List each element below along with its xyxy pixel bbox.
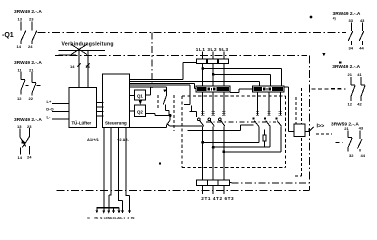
junction dot L2 xyxy=(212,73,215,76)
changeover arrow xyxy=(22,140,26,144)
aux contact block Q1 (top left, 2NO) xyxy=(2,9,42,49)
trip contact xyxy=(305,127,314,132)
bypass contact K2 xyxy=(167,116,171,128)
CT block right (bypass) xyxy=(253,86,284,92)
branch L1 to bypass c1 xyxy=(203,69,282,87)
svg-text:21: 21 xyxy=(348,72,353,77)
arrow Q1 to Q2 xyxy=(139,101,142,105)
control box Steuerung xyxy=(102,74,129,127)
relay box Q1 xyxy=(135,90,146,100)
svg-text:D-O: D-O xyxy=(46,107,53,112)
bypass contact K1 xyxy=(163,87,169,116)
phase wires down to CT xyxy=(203,64,224,87)
actuator dash-dot into device xyxy=(151,33,153,89)
junction dots on columns xyxy=(201,141,204,144)
svg-text:13: 13 xyxy=(18,17,23,22)
mechanical link dash-dot line (Q1 to right aux blocks) xyxy=(38,32,347,34)
wire pair with crossing (Verbindungsleitung) xyxy=(58,44,105,87)
svg-text:14: 14 xyxy=(17,44,22,49)
crossing X xyxy=(71,44,87,54)
fuse element xyxy=(263,129,265,135)
svg-text:44: 44 xyxy=(361,153,366,158)
aux contact block 3 (bottom left, changeover) xyxy=(14,117,42,160)
bypass contact column 3 xyxy=(275,92,282,153)
svg-text:14: 14 xyxy=(18,155,23,160)
svg-text:43: 43 xyxy=(360,18,365,23)
svg-text:1L1 3L2 5L3: 1L1 3L2 5L3 xyxy=(196,47,229,52)
svg-text:44: 44 xyxy=(359,46,364,51)
coupling dash-dot through contacts xyxy=(206,121,276,123)
svg-text:14: 14 xyxy=(85,64,90,69)
svg-text:4): 4) xyxy=(333,17,336,21)
wire CT to overcurrent trip xyxy=(284,87,294,132)
output terminal block 6T3 xyxy=(218,180,229,185)
svg-text:24: 24 xyxy=(27,155,32,160)
svg-text:Verbindungsleitung: Verbindungsleitung xyxy=(62,41,114,47)
actuator dash to NC block xyxy=(312,88,346,90)
svg-text:PE: PE xyxy=(131,216,135,220)
output terminal block 2T1 xyxy=(197,180,208,185)
svg-text:32: 32 xyxy=(349,153,354,158)
link between CT blocks xyxy=(230,89,253,92)
wire contact to power line xyxy=(167,124,203,126)
wire box2 to Q1 xyxy=(130,94,135,96)
fan supply wire L+ xyxy=(52,103,69,105)
fan supply wire L- xyxy=(52,118,69,120)
output stubs xyxy=(203,185,224,194)
svg-text:-Q1: -Q1 xyxy=(2,32,14,39)
contact Q1.1 (NO) xyxy=(21,22,26,45)
wire box2 to Q2 xyxy=(130,110,135,112)
actuator dash xyxy=(336,142,343,144)
svg-text:43: 43 xyxy=(359,126,364,131)
input terminal block 5L3 xyxy=(219,59,229,64)
bypass return wire 4 xyxy=(224,151,281,153)
contact NC xyxy=(348,131,352,152)
enclosure border top (dash-dot) xyxy=(55,55,307,57)
bypass contact column 2 xyxy=(264,92,271,147)
wire to junction xyxy=(155,115,170,117)
connector drops xyxy=(97,208,119,211)
svg-text:3RW49 2.-.A: 3RW49 2.-.A xyxy=(14,9,42,15)
svg-text:N/L-: N/L- xyxy=(118,216,124,220)
svg-text:Q2: Q2 xyxy=(137,110,143,115)
control wire 1 xyxy=(103,128,105,208)
action dashes right xyxy=(316,133,332,135)
input terminal stubs xyxy=(203,52,224,60)
branch L2 to bypass c2 xyxy=(213,74,270,86)
bypass contact column 1 xyxy=(253,92,260,143)
wire marks xyxy=(77,63,89,66)
thyristor column 2 xyxy=(208,92,215,180)
action dash line Q1 xyxy=(157,95,159,110)
wire to box2 bottom xyxy=(130,127,167,129)
contact Q1.2 (NO) xyxy=(32,22,37,45)
control wire 4 xyxy=(126,128,130,211)
output terminal block 4T2 xyxy=(207,180,218,185)
svg-text:+2 A2-: +2 A2- xyxy=(117,137,130,142)
enclosure border bottom (dash-dot) xyxy=(57,190,310,192)
svg-text:41: 41 xyxy=(357,72,362,77)
trip action dash-dot to right blocks xyxy=(232,182,310,184)
junction dot xyxy=(169,114,172,117)
svg-text:3RW49 2.-.A: 3RW49 2.-.A xyxy=(14,117,42,123)
fan supply wire mid xyxy=(52,110,69,112)
svg-text:1: 1 xyxy=(124,216,126,220)
control bus line 2 (to bypass c3) xyxy=(130,81,260,86)
enclosure border right (dash-dot) xyxy=(308,55,310,190)
bypass return wire 3 xyxy=(213,146,270,148)
contact NC left xyxy=(351,77,355,101)
contact NC 21-22 xyxy=(32,72,36,96)
ladder rungs between boxes xyxy=(97,103,104,117)
svg-text:23: 23 xyxy=(29,17,34,22)
svg-text:21: 21 xyxy=(344,126,349,131)
svg-text:3RW49 2.-.A: 3RW49 2.-.A xyxy=(332,64,360,70)
svg-text:22: 22 xyxy=(29,96,34,101)
control bus line 5 (to K1) xyxy=(130,86,167,88)
svg-text:33: 33 xyxy=(349,18,354,23)
svg-text:13: 13 xyxy=(17,124,22,129)
contact NO xyxy=(358,131,363,152)
contact 43-44 xyxy=(359,23,364,45)
svg-text:21: 21 xyxy=(29,68,34,73)
svg-text:I>>: I>> xyxy=(317,123,325,129)
marker triangle xyxy=(322,53,325,56)
svg-text:Steuerung: Steuerung xyxy=(105,121,127,126)
wire down to fan box (left) xyxy=(78,50,80,87)
svg-text:Q1: Q1 xyxy=(137,94,143,99)
aux contact block bottom right (NC+NO) xyxy=(331,121,366,158)
control wire 3 xyxy=(119,128,123,211)
svg-text:34: 34 xyxy=(349,46,354,51)
svg-text:L+: L+ xyxy=(47,99,52,104)
svg-text:2: 2 xyxy=(128,216,130,220)
arrowheads xyxy=(96,211,131,214)
thyristor column 3 xyxy=(219,92,226,180)
contact NC 11-12 xyxy=(21,72,25,95)
svg-text:N: N xyxy=(88,216,90,220)
control wire 2 xyxy=(109,128,111,208)
input terminal block 1L1 xyxy=(197,59,207,64)
bypass return wire 2 xyxy=(203,141,259,143)
svg-text:PE: PE xyxy=(95,216,99,220)
svg-text:42: 42 xyxy=(357,101,362,106)
output bar nub xyxy=(230,182,232,184)
fan box TÜ-Lüfter xyxy=(69,88,97,128)
svg-text:24: 24 xyxy=(28,44,33,49)
stray dot xyxy=(159,162,161,164)
inner dashed rectangle (power section) xyxy=(182,96,285,168)
junction dot L1 xyxy=(201,67,204,70)
aux contact block top right (2NO 33/34 43/44) xyxy=(333,11,366,51)
footnote dot xyxy=(310,16,313,19)
svg-text:3RW49 2.-.A: 3RW49 2.-.A xyxy=(14,60,42,66)
contact 33-34 xyxy=(348,23,353,45)
svg-text:12: 12 xyxy=(17,96,22,101)
actuator dashes xyxy=(26,85,41,87)
control bus line 1 (to terminal 1L1) xyxy=(130,63,197,80)
contact NC right xyxy=(361,77,365,101)
control bus line 4 (gate b) xyxy=(130,85,197,117)
thyristor column 1 xyxy=(198,92,205,180)
CT block left xyxy=(196,86,230,92)
svg-text:TÜ-Lüfter: TÜ-Lüfter xyxy=(72,121,92,126)
control bus line 3 (gate a) xyxy=(130,83,197,88)
wire down to fan box (right) xyxy=(87,50,89,88)
aux contact block middle right (2NC) xyxy=(331,61,365,106)
actuator arrowhead xyxy=(163,89,167,92)
action dashes below xyxy=(295,88,302,176)
actuator dash xyxy=(331,88,341,90)
input terminal block 3L2 xyxy=(208,59,218,64)
bypass return wire 1 xyxy=(188,125,254,131)
wire Q2 right xyxy=(146,113,155,115)
aux contact block 2 (middle left, 2NC) xyxy=(14,60,42,101)
overcurrent trip box xyxy=(294,88,332,176)
svg-text:3RW49 2.-.A: 3RW49 2.-.A xyxy=(333,11,361,17)
changeover contact xyxy=(20,128,30,155)
wire Q1 right xyxy=(146,87,151,95)
relay box Q2 xyxy=(135,105,146,116)
svg-text:12: 12 xyxy=(348,101,353,106)
svg-text:A1/+/1: A1/+/1 xyxy=(87,137,100,142)
svg-text:11: 11 xyxy=(18,68,23,73)
wire lower xyxy=(58,54,76,56)
connector bus xyxy=(97,207,120,209)
svg-text:2T1 4T2 6T3: 2T1 4T2 6T3 xyxy=(201,196,234,201)
wire upper xyxy=(58,49,105,51)
svg-text:14: 14 xyxy=(70,64,75,69)
svg-text:N: N xyxy=(100,216,102,220)
svg-text:L-: L- xyxy=(47,114,51,119)
wire destination labels xyxy=(88,216,135,220)
action dash line x174 xyxy=(173,95,175,131)
